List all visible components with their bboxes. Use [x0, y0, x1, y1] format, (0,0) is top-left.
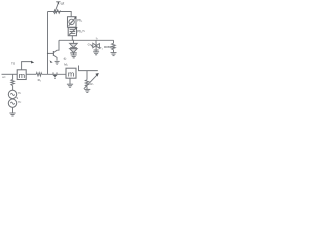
wire bus mid — [26, 73, 66, 76]
svg-text:Ph₁: Ph₁ — [77, 18, 82, 22]
wire right branch — [79, 66, 98, 90]
node tick between sources — [17, 97, 18, 98]
wire left vertical — [47, 12, 49, 75]
svg-text:(t): (t) — [64, 57, 67, 61]
svg-text:TG: TG — [11, 61, 16, 65]
arrowhead emitter Q1 — [50, 60, 53, 63]
capacitor C1 ticks — [53, 72, 57, 74]
resistor R1 on bus — [36, 73, 42, 76]
svg-text:u≈: u≈ — [2, 75, 6, 79]
wire wiper arm P1 — [54, 3, 58, 14]
svg-text:ωt: ωt — [61, 2, 65, 6]
wire base — [48, 52, 54, 54]
wire arrow across R2 — [69, 28, 76, 35]
arrowhead U1 — [74, 17, 76, 19]
svg-text:i₂: i₂ — [96, 36, 99, 40]
svg-text:R₋: R₋ — [90, 82, 94, 86]
wire box2 to rail2 — [71, 36, 73, 41]
svg-text:ω₂: ω₂ — [18, 99, 22, 103]
ground under M2 — [67, 84, 73, 87]
arrowhead R2 — [75, 27, 78, 29]
resistor R5 — [112, 40, 116, 52]
svg-text:m: m — [68, 70, 74, 79]
transistor Q1 — [47, 50, 57, 60]
wire between G1 G2 — [12, 98, 14, 100]
node wiper terminal bar — [56, 1, 60, 3]
wire rail1 top — [48, 12, 72, 17]
svg-text:ω₁: ω₁ — [18, 90, 21, 94]
wire arrow across U1 — [69, 18, 76, 26]
motor M1 box — [17, 70, 26, 80]
generator G1 — [8, 90, 16, 98]
sine G1 — [10, 93, 14, 95]
rheostat R3 — [85, 80, 88, 87]
arrowhead shaft — [31, 61, 34, 64]
meter U1 circle — [69, 19, 74, 24]
triac T1 — [90, 40, 99, 51]
sine G2 — [10, 102, 14, 104]
ground under T1 — [93, 52, 99, 55]
arrowhead R3 arrow — [95, 73, 98, 77]
wire rail2 left drop — [57, 40, 59, 50]
svg-text:M₂: M₂ — [64, 62, 68, 66]
arrowhead junction C1 — [52, 75, 57, 78]
heater R2 box — [68, 28, 76, 36]
wire M1 shaft up — [22, 62, 32, 70]
wire rail2 — [59, 39, 114, 41]
ground under R5 — [111, 53, 117, 56]
ground bottom left — [9, 113, 15, 116]
resistor R4 vertical — [11, 79, 14, 85]
collector Q1 — [53, 50, 57, 52]
svg-text:n₁: n₁ — [82, 29, 85, 33]
ground under Q1 — [55, 61, 60, 64]
arrowhead P1 wiper — [58, 2, 60, 5]
ground under R3 — [84, 89, 90, 92]
diode D2 — [70, 49, 78, 53]
wire source branch — [8, 74, 16, 113]
motor M2 box — [66, 68, 76, 78]
svg-text:R₁: R₁ — [38, 78, 41, 82]
potentiometer P1 — [54, 10, 61, 13]
generator G2 — [8, 99, 16, 107]
meter U1 box — [68, 17, 77, 28]
element bars R2 — [70, 29, 76, 31]
wire M2 to ground — [69, 78, 71, 84]
wire drop to R3 — [86, 71, 88, 80]
wire bus left — [2, 70, 27, 80]
ground under D2 — [71, 55, 77, 58]
svg-text:m: m — [19, 71, 25, 80]
base bar Q1 — [52, 51, 54, 56]
svg-text:T₁: T₁ — [100, 46, 103, 50]
wire arrow across R3 — [84, 75, 97, 89]
wire gate T1 — [90, 44, 92, 46]
diode D1 — [70, 40, 78, 54]
emitter Q1 — [53, 55, 57, 60]
svg-text:G: G — [88, 43, 90, 47]
node dot C1 — [54, 78, 55, 79]
